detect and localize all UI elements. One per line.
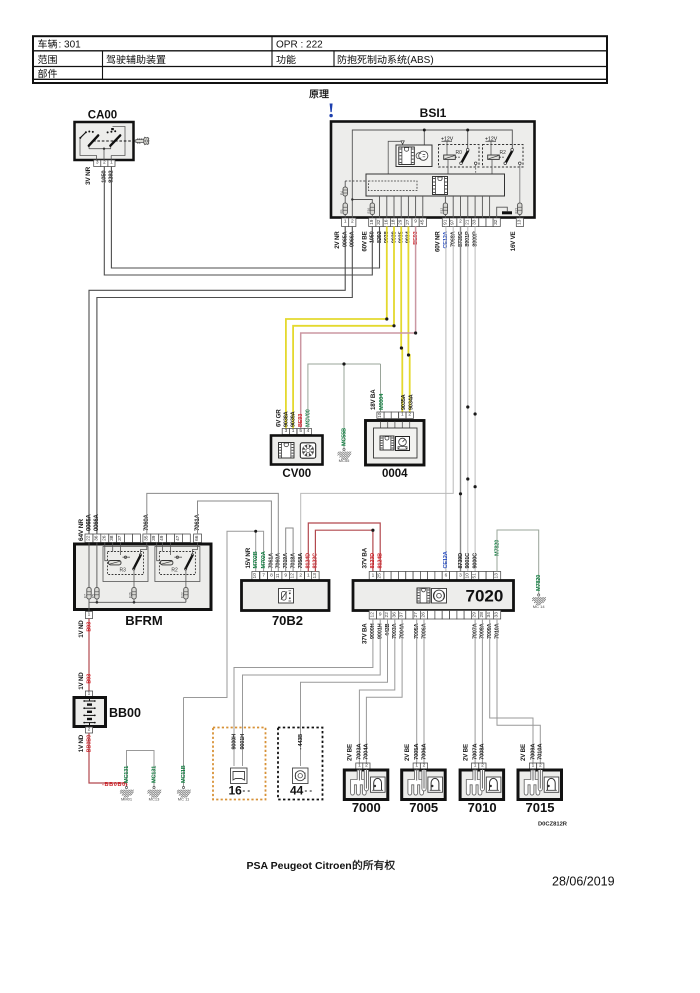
svg-text:MC55: MC55 [339, 458, 350, 463]
44 connector label [290, 784, 312, 798]
wire label BB0B0 horizontal [102, 782, 128, 788]
svg-text:2: 2 [365, 763, 368, 769]
wire label 7003A [392, 623, 398, 639]
wire 8124D/8124B [308, 523, 380, 572]
svg-text:7058A: 7058A [298, 553, 304, 569]
wire label 9000C [472, 553, 478, 569]
BSI1 internal supply wire [351, 129, 512, 219]
wire label 8292 [377, 231, 383, 243]
svg-text:32: 32 [376, 219, 382, 225]
svg-text:2V NR: 2V NR [334, 231, 341, 249]
svg-text:22: 22 [86, 535, 92, 541]
svg-text:29: 29 [398, 219, 404, 225]
svg-text:28: 28 [479, 612, 485, 618]
wire label MC131 [124, 766, 130, 783]
svg-text:MC 11: MC 11 [178, 796, 190, 801]
label 2V NR [334, 231, 341, 249]
wire label 7003A [357, 743, 363, 760]
fuse F22 [181, 588, 189, 600]
svg-text:7003A: 7003A [357, 743, 363, 760]
ground MC55 [338, 448, 352, 463]
relay R0 [439, 136, 480, 196]
wire label 9038A [283, 411, 289, 427]
diagnostic connector 16 box [213, 728, 266, 800]
svg-text:29: 29 [472, 612, 478, 618]
DLC icon [231, 768, 248, 784]
wire 1050 CA00 to BSI1 [104, 167, 372, 276]
wire 9038 BSI1 to CV00 [286, 227, 389, 429]
wire label 9038 [384, 231, 390, 243]
svg-text:9035A: 9035A [401, 394, 407, 410]
svg-text:M0004: M0004 [379, 393, 385, 410]
wire label 443B [298, 734, 304, 750]
svg-text:MC13: MC13 [149, 796, 160, 801]
svg-text:F4: F4 [340, 191, 344, 195]
svg-text:7006A: 7006A [421, 743, 427, 760]
wire label 8900P [472, 231, 478, 247]
svg-text:1V ND: 1V ND [78, 734, 85, 752]
wire 443B to 44 connector [301, 619, 388, 766]
svg-text:37: 37 [399, 612, 405, 618]
fuse F5 [92, 543, 100, 600]
header table frame [33, 36, 607, 83]
wire label M7820 [494, 540, 500, 556]
svg-text:7004A: 7004A [364, 743, 370, 760]
wire label B93 [86, 622, 92, 632]
BSI1 internal bus [366, 174, 505, 196]
ground MC14 [532, 594, 546, 609]
wire label 8901P [465, 231, 471, 247]
svg-text:22: 22 [384, 612, 390, 618]
svg-text:9034A: 9034A [408, 394, 414, 410]
ground MM01 [120, 786, 134, 801]
label 16V VE [510, 231, 517, 251]
battery BB00 [74, 698, 106, 727]
svg-text:(ABS): (ABS) [407, 55, 434, 66]
svg-text:D0CZ812R: D0CZ812R [538, 822, 568, 828]
connector pins BSI1 [342, 218, 524, 227]
wire BE93 BSI1 to CV00 [301, 227, 418, 429]
svg-text:7005A: 7005A [414, 743, 420, 760]
wire BB0B0 to ground MM01 [89, 733, 127, 787]
svg-text:7005: 7005 [409, 800, 438, 815]
wire label 7008A [480, 743, 486, 760]
header cell 车辆:301 [38, 39, 81, 50]
svg-text:11: 11 [275, 573, 281, 578]
svg-text:8123D: 8123D [370, 553, 376, 569]
label 1V ND [78, 672, 85, 690]
wire label 9034 [406, 230, 412, 243]
connector pins BFRM [85, 534, 202, 543]
svg-text:28/06/2019: 28/06/2019 [552, 875, 615, 889]
svg-text:97: 97 [450, 219, 456, 225]
ABS ECU 7020 body [353, 581, 514, 611]
svg-text:- -: - - [243, 786, 251, 795]
svg-text:7008A: 7008A [480, 743, 486, 760]
svg-text:F5: F5 [92, 594, 96, 598]
svg-text:9000C: 9000C [472, 553, 478, 569]
svg-text:2: 2 [423, 763, 426, 769]
wire label 7005A [414, 623, 420, 639]
wire label 9001H [240, 734, 246, 750]
wire label 7060A [276, 553, 282, 569]
svg-text:60V NR: 60V NR [435, 231, 442, 252]
svg-text:F16: F16 [367, 208, 371, 214]
svg-text:MC 14: MC 14 [533, 604, 546, 609]
svg-text:10: 10 [252, 573, 258, 579]
connector pins 7020 bottom [369, 611, 500, 620]
wire label MC131 [151, 766, 157, 783]
connector pins 70B2 [252, 572, 319, 581]
svg-text:12: 12 [290, 573, 296, 579]
wire label 0065A [343, 231, 349, 247]
wire label 9001C [465, 553, 471, 569]
wire MC11B from 70B2 grounds [184, 530, 264, 787]
svg-text:66: 66 [194, 535, 200, 541]
svg-text:15V NR: 15V NR [245, 547, 252, 568]
wire label 8123D [370, 553, 376, 569]
BFRM label [125, 613, 163, 628]
wire label 8123C [313, 553, 319, 569]
wire label 7061A [269, 553, 275, 569]
svg-text:9: 9 [284, 572, 287, 578]
svg-text:51: 51 [472, 573, 478, 579]
wire 9035 BSI1 to 0004 [400, 227, 403, 413]
wire label 7060A [144, 513, 150, 531]
wire label 7010A [538, 743, 544, 760]
wheel speed sensor 7015 [518, 769, 562, 800]
fuse F26 [129, 588, 137, 600]
label 15V NR [245, 547, 252, 568]
connector pins 0004 [377, 412, 414, 419]
svg-text:33: 33 [494, 612, 500, 618]
svg-text:7010: 7010 [468, 800, 497, 815]
svg-text:5: 5 [299, 428, 302, 434]
svg-text:16: 16 [229, 784, 243, 798]
7000 label [352, 800, 381, 815]
label 60V BE [361, 231, 368, 251]
BB00 label [109, 706, 141, 720]
svg-text:60V BE: 60V BE [361, 231, 368, 251]
svg-text:MC131: MC131 [151, 766, 157, 783]
svg-text:27: 27 [405, 219, 411, 225]
svg-text:BB00: BB00 [109, 706, 141, 720]
wire label 8739D [458, 553, 464, 569]
switch CA00 title [88, 110, 117, 122]
wheel speed sensor 7010 [460, 769, 504, 800]
svg-text:BFRM: BFRM [125, 613, 163, 628]
svg-text:2: 2 [459, 219, 462, 225]
svg-text:34: 34 [486, 612, 492, 618]
svg-text:7020: 7020 [466, 587, 504, 606]
svg-text:BSI1: BSI1 [420, 106, 447, 120]
svg-text:F12: F12 [440, 208, 444, 214]
svg-text:MM01: MM01 [121, 796, 133, 801]
label 18V BA [370, 389, 377, 410]
svg-text:OPR : 222: OPR : 222 [276, 40, 323, 51]
key symbol [136, 137, 149, 144]
svg-text:MC131: MC131 [124, 766, 130, 783]
0004 label [382, 468, 408, 480]
svg-text:18V BA: 18V BA [370, 389, 377, 410]
title 原理 [309, 90, 328, 99]
wire 7007A to sensor 7010 [474, 619, 476, 763]
wire label 7005A [414, 743, 420, 760]
svg-text:26: 26 [421, 612, 427, 618]
cluster icon [293, 768, 309, 784]
wire label 6V GR [275, 409, 282, 427]
7005 label [409, 800, 438, 815]
wire label 9035A [401, 394, 407, 410]
svg-text:1: 1 [372, 572, 375, 578]
connector pin BFRM bottom [85, 612, 92, 619]
wire label 8292 [109, 170, 115, 183]
instrument cluster 0004 body [366, 421, 425, 466]
wire label 7010A [494, 623, 500, 639]
svg-text:12: 12 [369, 612, 375, 618]
svg-text:7: 7 [262, 572, 265, 578]
label 1V ND [78, 734, 85, 752]
doc number D0CZ812R [538, 822, 568, 828]
wire label 9000H [370, 623, 376, 639]
label 37V BA top [362, 547, 369, 568]
svg-text:CE12A: CE12A [443, 551, 449, 568]
svg-text:R0: R0 [456, 150, 463, 156]
svg-text:2V BE: 2V BE [404, 744, 411, 761]
wire label CE12A [443, 551, 449, 568]
wire label 1050 [370, 231, 376, 243]
BSI1 bus pin stubs [380, 196, 490, 218]
svg-text:38: 38 [109, 535, 115, 541]
header cell 范围 [38, 55, 57, 64]
label 64V NR [78, 519, 85, 541]
fuse box BFRM body [75, 544, 212, 610]
label 2V BE (7010) [462, 744, 469, 761]
svg-text:7010A: 7010A [538, 743, 544, 760]
svg-text:2: 2 [299, 572, 302, 578]
svg-text:2: 2 [88, 727, 91, 733]
wire 8739C BSI1 to 7020 [459, 227, 462, 572]
connector pins sensor 7015 [529, 763, 544, 770]
svg-text:26: 26 [101, 535, 107, 541]
wire label 9034A [408, 394, 414, 410]
svg-text:1: 1 [532, 763, 535, 769]
BSI1 ground bar [497, 207, 512, 218]
wire label 9035 [399, 231, 405, 243]
svg-text:1: 1 [292, 428, 295, 434]
BSI1 title [420, 106, 447, 120]
svg-text:1: 1 [415, 763, 418, 769]
connector pins CV00 [282, 428, 311, 435]
70B2 label [272, 613, 303, 628]
svg-text:M702A: M702A [261, 551, 267, 568]
svg-text:16: 16 [383, 219, 389, 225]
svg-text:R3: R3 [120, 568, 127, 574]
header cell 防抱死制动系统(ABS) [338, 55, 434, 66]
connector pins sensor 7000 [356, 763, 370, 770]
wire label 7004A [364, 743, 370, 760]
BSI1 CPU module [388, 141, 432, 174]
wire label 8124D [306, 553, 312, 569]
ground MC11 [177, 786, 191, 801]
label 1V ND [78, 620, 85, 638]
wire label B93 [86, 674, 92, 684]
wire label 7009A [530, 743, 536, 760]
svg-text:91: 91 [442, 219, 448, 225]
ground MC13 [148, 786, 162, 801]
svg-text:6: 6 [445, 572, 448, 578]
svg-text:49: 49 [159, 535, 165, 541]
svg-text:39: 39 [151, 535, 157, 541]
wire label 7068A [451, 231, 457, 247]
wire label 7008A [480, 623, 486, 639]
instrument connector 44 box [278, 728, 323, 800]
wire B93 BFRM to BB00 [88, 619, 90, 692]
wire label M702A [261, 551, 267, 568]
svg-text:2: 2 [481, 763, 484, 769]
svg-text:2V BE: 2V BE [462, 744, 469, 761]
wheel speed sensor 7000 [344, 769, 388, 800]
svg-text:6V GR: 6V GR [275, 409, 282, 427]
wire 7010A to sensor 7015 [497, 619, 540, 763]
wire label BB0B0 [86, 735, 92, 752]
svg-text:3V NR: 3V NR [85, 166, 92, 184]
wire 9000H to 16pin connector [234, 619, 373, 766]
wire 9001H to 16pin connector [243, 619, 381, 766]
wire label 7019A [283, 553, 289, 569]
wire label 0066A [350, 231, 356, 247]
connector pins CA00 3/2/1 [94, 160, 115, 167]
svg-text:MC55B: MC55B [341, 428, 347, 446]
svg-text:7007A: 7007A [472, 743, 478, 760]
wire 7009A to sensor 7015 [490, 619, 533, 763]
svg-text:1: 1 [88, 612, 91, 618]
wire label 8124B [378, 553, 384, 569]
wire label 9000H [231, 734, 237, 750]
relay R2 in BFRM [155, 543, 200, 588]
wire label MC55B [341, 428, 347, 446]
wire label 443B [385, 623, 391, 636]
header cell 驾驶辅助装置 [106, 55, 165, 64]
svg-text:0004: 0004 [382, 468, 408, 480]
relay R3 in BFRM [103, 543, 148, 588]
header cell OPR:222 [276, 40, 323, 51]
label 60V NR [435, 231, 442, 252]
label 2V BE (7005) [404, 744, 411, 761]
svg-text:- -: - - [305, 786, 313, 795]
wire label 7006A [421, 623, 427, 639]
svg-text:9038A: 9038A [283, 411, 289, 427]
svg-text:7015: 7015 [526, 800, 555, 815]
svg-text:1V ND: 1V ND [78, 672, 85, 690]
CV00 label [282, 468, 311, 480]
svg-text:16V VE: 16V VE [510, 231, 517, 251]
svg-text:9039A: 9039A [291, 411, 297, 427]
svg-text:M702B: M702B [253, 551, 259, 568]
svg-text:10: 10 [377, 412, 383, 418]
svg-text:19: 19 [369, 219, 375, 225]
relay R2 [483, 136, 524, 203]
ABS block 70B2 body [242, 581, 330, 611]
wire loop 7019A/7018A [286, 528, 293, 572]
wire 7061A BFRM to 70B2 [198, 501, 272, 572]
ECU BSI1 body [331, 122, 535, 218]
wire label 0066A [94, 513, 100, 531]
wire 7004A to sensor 7000 [366, 619, 402, 763]
wire label BE93 [413, 231, 419, 244]
wire label 7058A [298, 553, 304, 569]
warning icon ! [329, 104, 332, 118]
connector pin BB00 bottom [85, 727, 92, 734]
fuse F21 [515, 203, 523, 218]
svg-text:0065A: 0065A [86, 513, 92, 531]
svg-text:45: 45 [419, 219, 425, 225]
wire 7068A BSI1 to 70B2 [301, 227, 454, 572]
svg-text:2: 2 [539, 763, 542, 769]
connector pins sensor 7010 [472, 763, 487, 770]
svg-text:CV00: CV00 [282, 468, 311, 480]
svg-text:3: 3 [96, 160, 99, 166]
svg-text:37: 37 [117, 535, 123, 541]
fuse F4 [340, 187, 348, 196]
wire label 7007A [472, 623, 478, 639]
svg-text:1: 1 [344, 219, 347, 225]
svg-text:F26: F26 [129, 592, 133, 598]
header cell 功能 [276, 55, 295, 64]
wire M7820 to ground MC14 [497, 530, 539, 594]
wire CE12A BSI1 to 7020 [445, 227, 447, 572]
svg-text:33: 33 [472, 219, 478, 225]
svg-text:F7: F7 [84, 594, 88, 598]
16 connector label [229, 784, 251, 798]
fuse F16 [367, 203, 375, 218]
svg-text:13: 13 [494, 573, 500, 579]
svg-text:27: 27 [413, 612, 419, 618]
7015 label [526, 800, 555, 815]
svg-text:7009A: 7009A [530, 743, 536, 760]
svg-text:F22: F22 [181, 592, 185, 598]
svg-text:1: 1 [474, 763, 477, 769]
wire label 8739C [458, 231, 464, 247]
wire label 1050 [102, 170, 108, 183]
date [552, 875, 615, 889]
wire 8901P BSI1 to 7020 [466, 227, 469, 572]
svg-text:F21: F21 [515, 208, 519, 214]
wire 9039 BSI1 to CV00 [293, 227, 396, 429]
svg-text:10: 10 [464, 573, 470, 579]
wheel speed sensor 7005 [402, 769, 446, 800]
7010 label [468, 800, 497, 815]
wire label BE93 [298, 414, 304, 427]
svg-text:37V BA: 37V BA [362, 547, 369, 568]
copyright line [247, 860, 395, 872]
svg-text:1V ND: 1V ND [78, 620, 85, 638]
svg-text:2: 2 [408, 412, 411, 418]
label 2V BE (7000) [347, 744, 354, 761]
wire MCV00/M0004 to ground MC55B [308, 362, 381, 448]
svg-text:8: 8 [270, 572, 273, 578]
wire label MCV00 [305, 409, 311, 427]
wire label CE12A [443, 231, 449, 248]
svg-text:70B2: 70B2 [272, 613, 303, 628]
wire 8123C/8123D [315, 529, 374, 572]
svg-text:CA00: CA00 [88, 110, 117, 122]
svg-text:1: 1 [358, 763, 361, 769]
label 3V NR [85, 166, 92, 184]
svg-text:2V BE: 2V BE [520, 744, 527, 761]
svg-text:2V BE: 2V BE [347, 744, 354, 761]
svg-text:1: 1 [307, 572, 310, 578]
